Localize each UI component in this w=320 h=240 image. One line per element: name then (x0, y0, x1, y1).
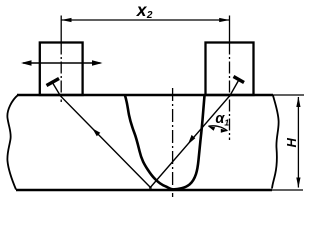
plate right break edge (272, 96, 279, 189)
svg-text:x2: x2 (136, 0, 153, 21)
left beam (reflected leg toward left probe) (52, 81, 152, 189)
plate bottom edge (16, 189, 303, 192)
svg-text:α1: α1 (215, 111, 229, 127)
probe box left (40, 43, 83, 96)
left probe index marker bar (47, 79, 60, 86)
plate left break edge (7, 95, 18, 190)
right beam (incident leg toward root) (149, 80, 238, 189)
dimension H line (296, 97, 300, 189)
probe movement double arrow (21, 60, 103, 66)
dimension X2 line (61, 18, 229, 22)
svg-text:H: H (284, 137, 299, 147)
probe box right (206, 43, 254, 96)
angle alpha1 arc (208, 126, 228, 133)
weld pool outline right branch (173, 96, 205, 190)
weld pool outline left branch (125, 96, 173, 190)
left probe centerline (extension for X2) (60, 16, 62, 103)
right probe centerline (extension for X2) (229, 16, 231, 141)
weld centerline (172, 88, 174, 197)
plate top edge (17, 94, 304, 97)
right probe index marker bar (234, 77, 245, 83)
